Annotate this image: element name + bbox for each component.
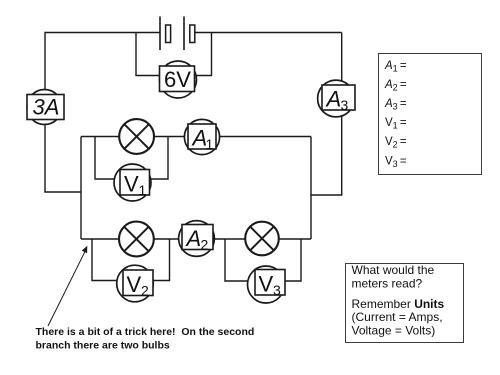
wire A3 lower lead <box>310 98 341 195</box>
wire V3 loop <box>225 239 301 281</box>
svg-text:6V: 6V <box>164 67 191 92</box>
ammeter 3A <box>27 90 64 125</box>
wire V1 loop <box>95 137 168 180</box>
wire top-right segment <box>195 32 342 34</box>
wire 6V loop <box>136 33 212 76</box>
svg-text:A: A <box>325 87 342 112</box>
wire left drop to 3A <box>44 32 46 192</box>
svg-text:(Current = Amps,: (Current = Amps, <box>352 310 443 324</box>
wire right bus <box>310 137 312 240</box>
wire left bus <box>80 137 82 240</box>
svg-text:2: 2 <box>201 237 209 253</box>
ammeter A3 <box>318 80 355 117</box>
svg-text:V2 =: V2 = <box>385 136 407 150</box>
svg-text:3: 3 <box>273 282 281 298</box>
svg-text:A: A <box>185 226 202 251</box>
wire V2 loop <box>92 239 170 281</box>
answers box <box>379 54 482 175</box>
annotation arrow <box>48 246 87 326</box>
svg-text:1: 1 <box>206 136 214 152</box>
svg-text:3A: 3A <box>33 95 60 120</box>
wire branch 2 <box>81 238 311 240</box>
voltmeter V3 <box>248 266 286 303</box>
wire 3A to left bus <box>44 191 81 193</box>
svg-text:Remember Units: Remember Units <box>352 297 445 311</box>
svg-text:3: 3 <box>341 97 349 113</box>
battery cell 1 <box>160 17 171 51</box>
wire top-left segment <box>45 32 160 34</box>
wire A3 upper lead <box>341 33 343 99</box>
wire branch 1 <box>81 136 311 138</box>
svg-text:V: V <box>124 172 139 197</box>
bulb L1 <box>119 119 154 154</box>
voltmeter V2 <box>117 265 154 302</box>
question box <box>346 264 464 343</box>
voltmeter 6V <box>160 61 197 98</box>
note text <box>36 326 255 352</box>
svg-text:1: 1 <box>139 182 147 198</box>
svg-text:meters read?: meters read? <box>352 277 423 291</box>
svg-text:branch there are two bulbs: branch there are two bulbs <box>36 340 170 352</box>
ammeter A2 <box>179 221 215 257</box>
svg-text:What would the: What would the <box>352 263 435 277</box>
question text <box>352 263 445 338</box>
svg-text:V3 =: V3 = <box>385 156 407 170</box>
svg-text:2: 2 <box>141 283 149 299</box>
svg-text:Voltage = Volts): Voltage = Volts) <box>352 324 436 338</box>
svg-text:V1 =: V1 = <box>385 117 407 131</box>
svg-text:There is a bit of a trick here: There is a bit of a trick here! On the s… <box>36 326 255 338</box>
ammeter A1 <box>184 119 219 154</box>
bulb L2 <box>119 222 154 257</box>
bulb L3 <box>245 222 279 256</box>
voltmeter V1 <box>114 164 151 201</box>
battery cell 2 <box>184 17 195 51</box>
svg-text:V: V <box>259 272 274 297</box>
svg-text:V: V <box>127 272 142 297</box>
